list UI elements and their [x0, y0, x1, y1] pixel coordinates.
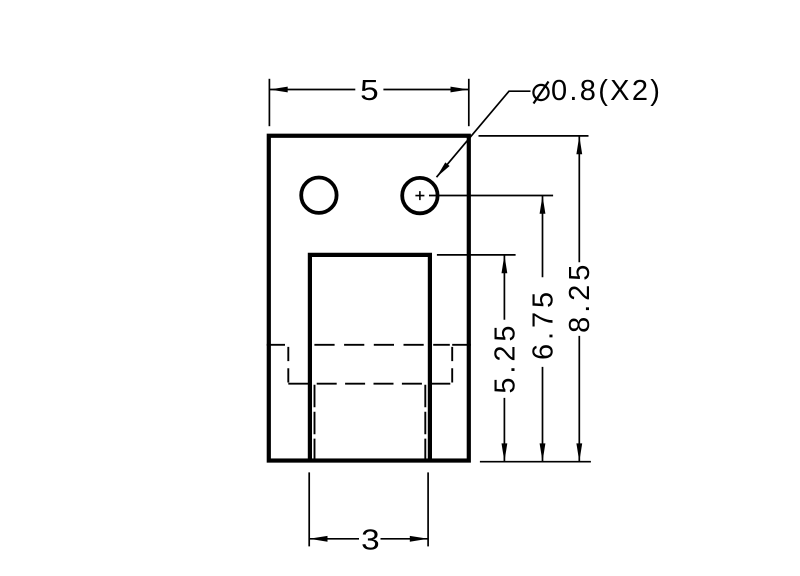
hole left — [301, 178, 336, 213]
svg-text:8.25: 8.25 — [564, 261, 596, 333]
dim 8.25 line — [578, 136, 580, 462]
dim 5 line — [269, 89, 468, 91]
hidden slot left edge — [314, 385, 316, 461]
hidden step edge across slot — [314, 344, 449, 346]
dim 8.25 extension line top — [479, 135, 589, 137]
hidden slot right edge — [424, 385, 426, 461]
step edge left visible — [267, 344, 285, 346]
hidden pocket right edge — [451, 347, 453, 384]
dim 5 extension line right — [468, 79, 470, 126]
dim 5.25 line — [503, 255, 505, 462]
svg-text:5.25: 5.25 — [489, 322, 521, 394]
dim 6.75 arrows — [540, 196, 546, 214]
dim 5 arrow left — [269, 87, 287, 93]
dim 3 line — [309, 538, 428, 540]
hole callout text — [533, 75, 662, 107]
hidden pocket left edge — [287, 347, 289, 384]
dim 3 extension line right — [427, 472, 429, 546]
outer plate outline — [269, 136, 469, 461]
slot outline — [310, 255, 430, 461]
step edge right visible — [452, 344, 471, 346]
dim 3 extension line left — [308, 472, 310, 546]
dim 5.25 extension line — [437, 254, 516, 256]
bottom extension line shared — [480, 461, 591, 463]
svg-text:5: 5 — [360, 74, 379, 106]
leader line to hole — [437, 91, 531, 177]
dim 6.75 extension line — [429, 195, 553, 197]
dim 8.25 arrows — [576, 136, 582, 154]
dim 5 arrow right — [451, 87, 469, 93]
svg-text:3: 3 — [361, 523, 380, 555]
dim 3 arrows — [309, 536, 327, 542]
leader arrowhead — [437, 162, 450, 177]
svg-text:0.8(X2): 0.8(X2) — [551, 75, 662, 107]
hidden pocket bottom edge — [288, 383, 450, 385]
svg-text:6.75: 6.75 — [527, 288, 559, 360]
dim 6.75 line — [542, 196, 544, 462]
hole right — [402, 178, 437, 213]
center mark on right hole — [415, 191, 424, 200]
dim 5.25 arrows — [502, 255, 508, 273]
dim 5 extension line left — [268, 79, 270, 126]
